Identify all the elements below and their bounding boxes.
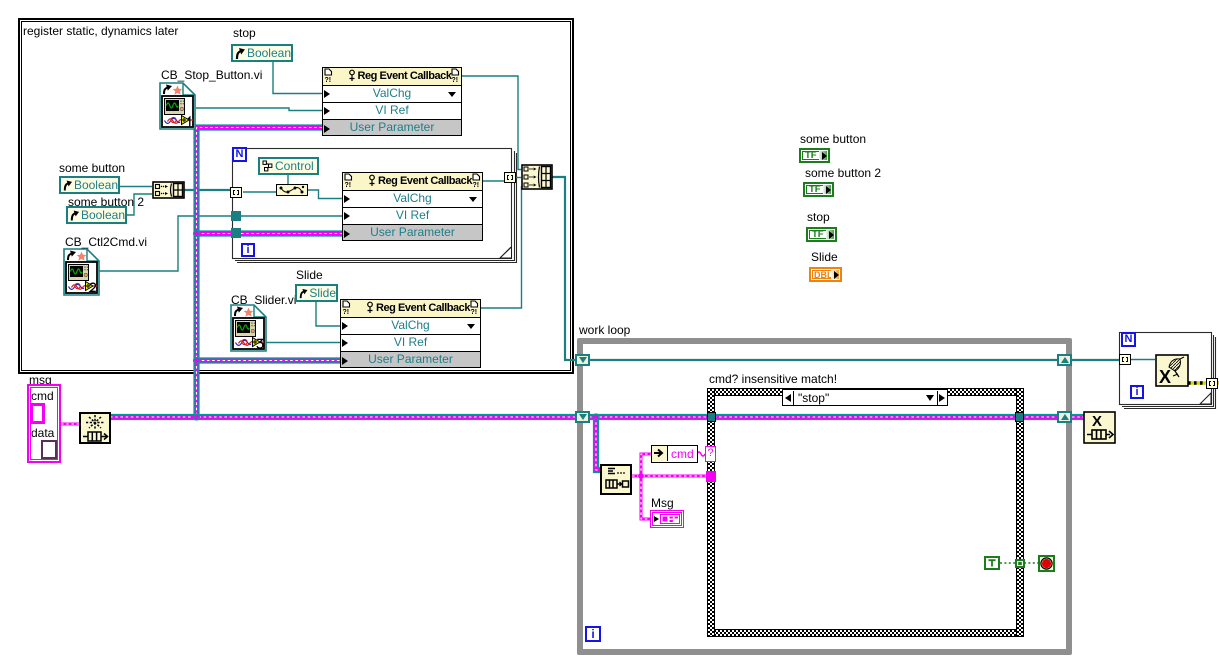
wire: queue to release queue node [1072,414,1084,420]
junction: queue / dequeue branch [592,413,599,420]
tunnel: error out of N-loop [1206,378,1218,389]
loop condition terminal (stop) [1038,555,1055,572]
label: some button 2 [68,196,144,209]
wire: build array out to loop tunnel (event reg array) [184,189,232,191]
shift register right top [1057,354,1072,366]
wire: branch down to Msg indicator [641,476,651,519]
for loop i label [241,243,255,257]
for loop N label [232,147,247,162]
wire: register node to RegEventCallback2 ValChg [307,190,342,199]
build array node (booleans) [152,181,185,199]
wire: obtain queue output to work loop [110,414,577,420]
label: cmd [31,390,54,403]
vi reference constant: CB_Stop_Button.vi [159,82,197,131]
N-loop i label [1130,385,1144,399]
label: msg [29,374,52,387]
case structure border [707,388,1024,396]
wire: right tunnel to build array2 [514,177,521,179]
wire: queue branch to loop tunnel (UserParameter 2) [197,230,233,236]
svg-text:X: X [1092,413,1102,430]
label: work loop [579,324,630,337]
label: Msg [651,497,674,510]
wire: RegEventCallback1 output to build array2 [462,76,521,170]
dequeue element node [600,464,632,495]
label: Control ref constant [258,157,319,175]
terminal: some button TF [799,148,830,163]
control ref constant: some button Boolean [59,176,120,194]
wire: CB_Slider viref to RegEventCallback3 VI Ref [266,342,340,344]
outer frame: register static section [19,19,573,373]
cluster constant msg [27,384,61,463]
label: some button 2 (terminal) [805,167,881,180]
label: CB_Slider.vi [231,294,296,307]
svg-text:?!: ?! [471,309,478,315]
wire: some button ref to build array [119,186,152,188]
label: stop [233,27,256,40]
wire: branch up to unbundle cmd [641,454,651,476]
label: Slide (terminal) [811,251,838,264]
terminal: stop TF [806,227,837,242]
while loop border [577,338,1072,655]
build array node (event reg array) [521,164,553,190]
tunnel: VI ref into loop [231,211,241,221]
terminal: Slide DBL [809,267,842,282]
label: cmd? insensitive match! [709,373,837,386]
label: Slide [296,269,323,282]
tunnel: cluster into case [706,471,716,482]
wire: queue refnum main trunk up to RegEventCallback1 UserParameter [197,128,323,418]
svg-text:?!: ?! [452,77,459,83]
wire: N-loop tunnel to unregister node [1129,359,1155,361]
tunnel: boolean out of case [1015,559,1025,568]
tunnel: indexing output (event reg) [504,172,516,183]
wire: tunnel to register node (array in loop) [243,191,277,193]
wire: unregister error out to N-loop tunnel [1188,381,1207,385]
obtain queue node [79,412,111,444]
vi reference constant: CB_Slider.vi [230,304,268,353]
wire: CB_Ctl2Cmd viref to loop tunnel [99,216,232,271]
control ref constant: Slide [295,284,338,302]
junction: queue trunk / branch 2 [193,230,200,237]
register-for-events helper node [276,184,308,196]
wire: queue inside loop to RegEventCallback2 UserParameter [241,230,342,236]
tunnel: indexing input (boolean array) [230,187,242,198]
control ref constant: stop Boolean [231,44,293,62]
case selector label: "stop" [782,389,948,406]
wire: build array2 to work loop shift register [552,177,576,360]
junction: dequeue element branches [638,473,644,479]
label: register section comment [23,25,178,38]
wire: Slide ref to RegEventCallback3 ValChg [316,301,340,326]
label: CB_Ctl2Cmd.vi [65,236,147,249]
case selector terminal ? [705,446,716,462]
label: some button (terminal) [800,133,866,146]
wire: work loop top shift wire [589,359,1058,361]
shift register right bottom [1057,411,1072,423]
label: some button [59,162,125,175]
Reg Event Callback node 3 [340,299,481,368]
wire: some button 2 ref to build array [126,194,152,215]
Msg cluster indicator [650,510,684,528]
terminal: some button 2 TF [803,182,834,197]
wire: tunnel to RegEventCallback2 VI Ref [241,215,342,217]
wire: msg cluster to obtain queue [61,423,80,426]
variant constant data [41,440,57,459]
string constant cmd [30,403,45,424]
svg-text:?!: ?! [343,309,350,315]
shift register left bottom [575,411,590,423]
unbundle by name node: cmd [651,445,698,463]
boolean constant T [984,556,1000,570]
wire: queue branch to RegEventCallback3 UserParameter [197,357,341,363]
wire: queue through work loop and case [589,414,1058,420]
unregister for events node [1155,354,1189,387]
svg-text:X: X [1159,367,1171,387]
wire: control ref to register node [287,174,289,185]
svg-text:?!: ?! [345,182,352,188]
label: data [31,427,54,440]
tunnel: event reg array into N-loop [1119,354,1131,365]
wire: stop boolean ref to RegEventCallback1 ValChg [273,61,322,94]
control ref constant: some button 2 Boolean [66,206,127,224]
shift register left top [575,354,590,366]
tunnel: queue into case [707,412,716,422]
N-loop (unregister) N label [1121,332,1136,347]
tunnel: queue out of case [1015,412,1024,422]
wire: RegEventCallback3 output to build array2 [481,186,522,308]
wire: queue branch down to dequeue [596,417,604,470]
junction: queue trunk / main [193,413,200,420]
wire: dequeue element out to case tunnel [632,475,707,478]
Reg Event Callback node 2 [342,172,483,241]
Reg Event Callback node 1 [322,67,462,136]
wire: case tunnel to loop condition terminal [1024,562,1038,564]
for loop (unregister section) border [1120,333,1216,409]
wire: CB_Stop_Button viref to RegEventCallback1 VI Ref [196,108,322,111]
tunnel: queue into loop [231,228,241,238]
while loop i terminal [585,626,601,642]
wire: error out of N-loop [1215,381,1219,385]
wire: shift register to unregister N-loop [1072,359,1121,361]
vi reference constant: CB_Ctl2Cmd.vi [63,248,101,297]
svg-text:?!: ?! [325,77,332,83]
wire: T constant to case tunnel [1000,562,1016,564]
for loop (register section) border [233,149,517,263]
release queue node [1083,411,1116,444]
wire: cmd string squiggle to case selector [697,452,705,456]
label: stop (terminal) [807,211,830,224]
svg-text:?!: ?! [473,182,480,188]
wire: RegEventCallback2 output to right tunnel [483,180,505,182]
junction: queue trunk / branch 3 [193,357,200,364]
label: CB_Stop_Button.vi [161,69,262,82]
